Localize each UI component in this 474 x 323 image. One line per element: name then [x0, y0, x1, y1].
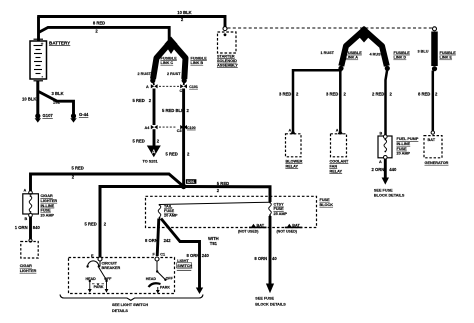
svg-text:20 AMP: 20 AMP: [164, 214, 178, 218]
apex node A/D: [362, 26, 367, 31]
svg-text:LINK B: LINK B: [191, 61, 204, 65]
svg-text:20 AMP: 20 AMP: [397, 152, 411, 156]
fusible link A: [341, 30, 364, 66]
svg-text:CIGAR: CIGAR: [41, 194, 53, 198]
svg-text:A: A: [152, 150, 156, 156]
svg-text:SEE LIGHT SWITCH: SEE LIGHT SWITCH: [112, 303, 148, 307]
svg-text:LIGHTER: LIGHTER: [20, 269, 37, 273]
svg-text:2 RED: 2 RED: [372, 91, 384, 96]
svg-text:SEE FUSE: SEE FUSE: [374, 188, 393, 192]
svg-text:CTSY: CTSY: [274, 203, 285, 207]
connector C100 row: [145, 125, 196, 133]
svg-text:OFF: OFF: [104, 277, 112, 281]
svg-text:BREAKER: BREAKER: [102, 266, 121, 270]
wire: link A to blower/coolant relays: [293, 68, 341, 134]
brace under light switch: [60, 295, 203, 301]
svg-text:SWITCH: SWITCH: [177, 264, 192, 268]
wire: link E to generator: [432, 71, 435, 131]
starter solenoid terminal circle: [223, 27, 227, 31]
wire 8 ORN 240 (with T81): [161, 219, 200, 289]
svg-text:2 ORN: 2 ORN: [372, 167, 385, 172]
svg-text:G-44: G-44: [79, 112, 89, 117]
tail fuse: [158, 204, 178, 219]
fusible link E: [432, 27, 437, 71]
battery B1: [30, 39, 47, 81]
svg-text:TO S201: TO S201: [143, 160, 158, 164]
svg-text:CIRCUIT: CIRCUIT: [102, 261, 118, 265]
svg-text:ASSEMBLY: ASSEMBLY: [217, 63, 238, 67]
svg-text:B: B: [380, 131, 383, 135]
svg-text:(NOT USED): (NOT USED): [277, 230, 297, 234]
wire: 10 BLK top horizontal run to starter solenoid: [37, 17, 225, 27]
svg-text:240: 240: [202, 253, 210, 258]
svg-text:3 BLU: 3 BLU: [418, 50, 429, 54]
svg-text:DETAILS: DETAILS: [112, 309, 128, 313]
svg-text:T81: T81: [210, 241, 218, 246]
svg-text:8 ORN: 8 ORN: [187, 253, 200, 258]
ctsy fuse: [269, 202, 288, 217]
svg-text:A: A: [24, 188, 27, 192]
svg-text:1 ORN: 1 ORN: [15, 225, 28, 230]
svg-text:C100: C100: [187, 126, 196, 130]
svg-text:8 ORN: 8 ORN: [145, 238, 158, 243]
svg-text:LINK C: LINK C: [161, 61, 174, 65]
svg-text:FUSE: FUSE: [274, 207, 285, 211]
svg-text:BAT: BAT: [257, 223, 265, 227]
ground G107: [35, 113, 54, 122]
svg-text:FUSIBLE: FUSIBLE: [346, 51, 363, 55]
svg-text:3 RED: 3 RED: [326, 91, 338, 96]
apex node of links C/B: [168, 38, 173, 43]
svg-text:8 RED: 8 RED: [418, 91, 430, 96]
svg-text:1 RUST: 1 RUST: [321, 51, 335, 55]
wire 5 RED BLK (link B down to S201): [182, 89, 185, 187]
svg-text:FUSE: FUSE: [164, 209, 175, 213]
right switch contacts: [146, 261, 174, 294]
svg-text:G107: G107: [43, 113, 54, 118]
svg-text:FUSE: FUSE: [320, 198, 331, 202]
svg-text:IN-LINE: IN-LINE: [397, 142, 411, 146]
left switch contacts: [86, 268, 113, 293]
wire: to coolant fan relay: [339, 70, 342, 134]
svg-text:C101: C101: [189, 85, 198, 89]
svg-text:LIGHT: LIGHT: [177, 259, 189, 263]
svg-text:C3: C3: [177, 129, 182, 133]
svg-text:10 BLK: 10 BLK: [177, 10, 191, 15]
svg-text:B: B: [25, 217, 28, 221]
svg-text:3 RED: 3 RED: [279, 91, 291, 96]
fusible link D: [364, 30, 387, 66]
svg-text:BLOCK DETAILS: BLOCK DETAILS: [374, 193, 405, 197]
wire: battery positive riser: [37, 17, 40, 41]
svg-text:RELAY: RELAY: [286, 164, 299, 168]
svg-text:FUSE: FUSE: [41, 209, 52, 213]
svg-text:4 RUST: 4 RUST: [370, 53, 384, 57]
svg-text:5 RED: 5 RED: [217, 181, 229, 186]
wire 5 RED horizontal from cigar fuse riser: [31, 174, 184, 192]
svg-text:SEE FUSE: SEE FUSE: [255, 296, 274, 300]
fusible link C: [153, 42, 171, 79]
svg-text:COOLANT: COOLANT: [330, 159, 349, 163]
svg-text:5 RED: 5 RED: [85, 222, 97, 227]
fuel pump in-line fuse: [378, 131, 419, 163]
svg-text:GENERATOR: GENERATOR: [425, 161, 449, 165]
wire 8 ORN 242: tail fuse to light switch: [157, 219, 159, 257]
svg-text:PARK: PARK: [160, 286, 170, 290]
svg-text:5 RED: 5 RED: [133, 98, 145, 103]
fuse block (dashed box): [146, 196, 317, 227]
svg-text:FUSIBLE: FUSIBLE: [191, 56, 208, 60]
circuit breaker: [86, 261, 120, 270]
svg-text:PARK: PARK: [94, 285, 104, 289]
svg-text:BLOWER: BLOWER: [286, 159, 303, 163]
svg-text:40: 40: [272, 256, 277, 261]
svg-text:TAIL: TAIL: [164, 205, 173, 209]
svg-text:A: A: [336, 129, 339, 133]
svg-text:440: 440: [389, 167, 397, 172]
svg-text:FAN: FAN: [330, 164, 338, 168]
svg-text:LINK A: LINK A: [346, 56, 359, 60]
svg-text:242: 242: [164, 238, 172, 243]
svg-text:5 RED: 5 RED: [166, 151, 178, 156]
dashed line from starter solenoid to fusible links A/D/E: [228, 27, 433, 29]
svg-text:HEAD: HEAD: [86, 277, 97, 281]
svg-text:S201: S201: [187, 180, 195, 184]
svg-text:A: A: [289, 129, 292, 133]
wire 5 RED from S201 left to light switch: [100, 187, 184, 259]
svg-text:STARTER: STARTER: [217, 54, 235, 58]
svg-text:FUSIBLE: FUSIBLE: [394, 51, 411, 55]
splice S201: [181, 179, 197, 189]
svg-text:151: 151: [53, 99, 61, 104]
svg-text:BAT: BAT: [428, 138, 436, 142]
wire: 8 RED feed from battery to fusible links C/B: [39, 27, 170, 40]
svg-text:(NOT USED): (NOT USED): [238, 230, 258, 234]
connector C101 row: [146, 84, 198, 93]
coolant fan relay: [330, 129, 349, 174]
BAT terminals (not used): [238, 223, 267, 233]
wire 1 ORN to cigar lighter: [29, 217, 32, 240]
svg-text:BATTERY: BATTERY: [49, 40, 70, 45]
svg-text:FUEL PUMP: FUEL PUMP: [397, 137, 419, 141]
off-page arrow A (TO S201): [143, 146, 161, 164]
svg-text:A: A: [146, 85, 149, 89]
svg-text:5 RED: 5 RED: [72, 166, 84, 171]
svg-text:8 ORN: 8 ORN: [254, 256, 267, 261]
internal bus wire: [160, 202, 271, 204]
svg-text:10 BLK: 10 BLK: [22, 97, 36, 102]
svg-text:BAT: BAT: [292, 223, 300, 227]
cigar lighter (dashed box): [20, 239, 38, 273]
svg-text:5 RED: 5 RED: [133, 138, 145, 143]
svg-text:LINK D: LINK D: [394, 56, 407, 60]
svg-text:HEAD: HEAD: [146, 277, 157, 281]
wire: link D to fuel pump fuse: [386, 69, 388, 135]
fusible link B: [172, 42, 186, 79]
svg-text:BLOCK DETAILS: BLOCK DETAILS: [255, 302, 286, 306]
svg-text:BLOCK: BLOCK: [320, 203, 334, 207]
svg-text:25 AMP: 25 AMP: [274, 212, 288, 216]
wire 2 ORN below fuel pump fuse: [384, 159, 387, 178]
wire 5 RED from S201 right to fuse block: [184, 187, 270, 203]
svg-text:IN-LINE: IN-LINE: [41, 204, 55, 208]
svg-text:FUSE: FUSE: [397, 147, 408, 151]
ground G-44: [70, 112, 89, 122]
svg-text:3 BLK: 3 BLK: [52, 91, 64, 96]
svg-text:FUSIBLE: FUSIBLE: [440, 51, 457, 55]
cigar lighter in-line fuse: [23, 188, 58, 221]
starter solenoid assembly (dashed box): [217, 32, 238, 67]
svg-text:C: C: [180, 89, 183, 93]
wire: 3 BLK branch to right ground: [39, 92, 74, 115]
wire 5 RED (link C to A4): [153, 89, 156, 126]
svg-text:FUSIBLE: FUSIBLE: [161, 56, 178, 60]
svg-text:20 AMP: 20 AMP: [41, 213, 55, 217]
wire: battery negative to grounds: [36, 81, 39, 114]
svg-text:C1: C1: [160, 252, 165, 256]
svg-text:LINK E: LINK E: [440, 56, 453, 60]
svg-text:840: 840: [33, 225, 41, 230]
svg-text:5 RED BLK: 5 RED BLK: [162, 108, 184, 113]
svg-text:2 RUST: 2 RUST: [138, 72, 152, 76]
svg-text:OFF: OFF: [166, 276, 174, 280]
svg-text:2 RUST: 2 RUST: [167, 72, 181, 76]
light switch (dashed box): [69, 258, 175, 294]
wire 8 ORN 40: ctsy fuse output: [269, 216, 272, 285]
svg-text:SOLENOID: SOLENOID: [217, 59, 237, 63]
blower relay: [286, 129, 303, 169]
svg-text:A: A: [379, 160, 382, 164]
svg-text:LIGHTER: LIGHTER: [41, 199, 58, 203]
svg-text:CIGAR: CIGAR: [20, 264, 32, 268]
generator: [424, 131, 449, 165]
svg-text:8 RED: 8 RED: [93, 21, 105, 26]
wire 5 RED to arrow A: [153, 129, 156, 145]
svg-text:RELAY: RELAY: [330, 169, 343, 173]
